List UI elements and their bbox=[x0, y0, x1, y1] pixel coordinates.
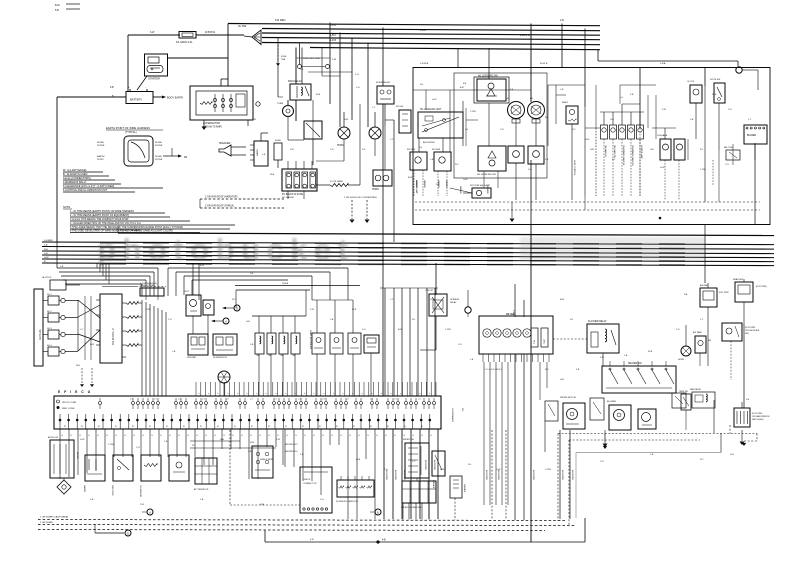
fuse radio bbox=[274, 140, 282, 168]
svg-text:2 OR W-R ROOF (HARDTOP): 2 OR W-R ROOF (HARDTOP) bbox=[205, 196, 238, 199]
svg-text:MARKER: MARKER bbox=[459, 186, 462, 194]
horn LH bbox=[337, 112, 350, 147]
wire top-left stub bbox=[55, 4, 80, 12]
wires sensor stubs into ECU bbox=[196, 382, 436, 396]
svg-text:L-Y: L-Y bbox=[412, 461, 416, 463]
svg-text:DIST: DIST bbox=[184, 291, 190, 293]
svg-text:3 mmmm THIS MEANS THE COMPANY: 3 mmmm THIS MEANS THE COMPANY INSULATOR bbox=[70, 218, 129, 221]
svg-text:1-B: 1-B bbox=[560, 19, 564, 22]
svg-text:(FOR TWIN: (FOR TWIN bbox=[752, 413, 763, 415]
svg-text:HORN: HORN bbox=[372, 189, 379, 191]
svg-text:L-Y L-B Y-G G-B R-Y: L-Y L-B Y-G G-B R-Y bbox=[484, 369, 502, 371]
svg-text:G-B: G-B bbox=[220, 439, 224, 441]
svg-text:4-B: 4-B bbox=[310, 539, 314, 541]
solenoid resistor bbox=[336, 476, 374, 503]
svg-text:ADJUSTER: ADJUSTER bbox=[423, 141, 435, 144]
svg-text:L-B: L-B bbox=[164, 441, 168, 443]
svg-text:MARKER: MARKER bbox=[415, 180, 418, 188]
svg-text:TRA: TRA bbox=[281, 58, 286, 61]
wire top bus bbox=[228, 18, 600, 50]
svg-text:CLEARANCE LAMP RH: CLEARANCE LAMP RH bbox=[631, 145, 634, 166]
svg-text:E F I E C U: E F I E C U bbox=[58, 390, 92, 394]
svg-text:W : A (LIGHT-EDGE): W : A (LIGHT-EDGE) bbox=[63, 169, 87, 172]
svg-text:4-B: 4-B bbox=[382, 540, 386, 542]
wires below ECU dashed bbox=[190, 430, 300, 505]
svg-text:1-B W-B: 1-B W-B bbox=[420, 63, 429, 65]
svg-text:W-B: W-B bbox=[712, 94, 717, 96]
svg-text:1.25B: 1.25B bbox=[700, 169, 706, 171]
svg-text:(USA 60-70 AMP): (USA 60-70 AMP) bbox=[203, 126, 222, 129]
svg-text:1-B: 1-B bbox=[200, 499, 204, 501]
wire labels scattered bbox=[80, 69, 752, 506]
blower motor bbox=[590, 398, 631, 430]
heater switch bbox=[602, 361, 676, 393]
svg-text:EARTH: EARTH bbox=[97, 155, 105, 158]
wire trunk x531 long bbox=[512, 224, 531, 542]
svg-text:L-B: L-B bbox=[172, 351, 176, 353]
svg-text:L-Y: L-Y bbox=[372, 107, 376, 109]
svg-text:Y-G: Y-G bbox=[600, 461, 604, 463]
svg-text:BATTERY: BATTERY bbox=[130, 98, 142, 102]
svg-text:O2 FEEDBACK: O2 FEEDBACK bbox=[451, 408, 454, 423]
svg-text:1 - W THIS MEANS (EARTH POINT: 1 - W THIS MEANS (EARTH POINT) OR WIRE H… bbox=[70, 210, 134, 213]
oxygen sensor bbox=[139, 455, 161, 497]
svg-text:2-G: 2-G bbox=[362, 329, 366, 331]
svg-text:5-B: 5-B bbox=[630, 94, 634, 96]
battery bbox=[57, 86, 183, 104]
svg-text:-: - bbox=[145, 86, 146, 89]
svg-text:BROWN NO2: BROWN NO2 bbox=[285, 444, 298, 446]
svg-text:1-B: 1-B bbox=[300, 454, 304, 456]
note text block bbox=[63, 205, 235, 233]
svg-text:CONNECTOR: CONNECTOR bbox=[303, 483, 317, 485]
svg-text:5-B: 5-B bbox=[576, 369, 580, 371]
flasher relay bbox=[553, 320, 619, 366]
turn signal flasher bbox=[277, 100, 294, 117]
svg-text:TURN: TURN bbox=[277, 103, 283, 105]
svg-text:NOTE: NOTE bbox=[63, 205, 70, 209]
svg-text:1-B: 1-B bbox=[262, 154, 266, 156]
svg-text:L-Y: L-Y bbox=[700, 319, 704, 321]
svg-text:1-B: 1-B bbox=[624, 355, 628, 357]
svg-text:OR DEFOGGER: OR DEFOGGER bbox=[745, 330, 760, 332]
A/F meter relay bbox=[684, 283, 729, 325]
circuit opening relay bbox=[420, 263, 460, 350]
svg-text:L-B: L-B bbox=[650, 454, 654, 456]
interior lamp bbox=[674, 139, 685, 200]
svg-text:2 OR W-B ROOF CONVERTIBLE: 2 OR W-B ROOF CONVERTIBLE bbox=[344, 197, 377, 199]
svg-text:5-B: 5-B bbox=[110, 87, 114, 89]
svg-text:OPENING: OPENING bbox=[450, 299, 460, 301]
svg-text:IGNITER: IGNITER bbox=[187, 357, 196, 359]
svg-text:B-W: B-W bbox=[460, 87, 464, 89]
svg-text:G-B: G-B bbox=[528, 169, 532, 171]
svg-text:1.25B: 1.25B bbox=[145, 309, 151, 311]
svg-text:4 - RALLED DIRECTION OF THE PA: 4 - RALLED DIRECTION OF THE PAGE AND NO … bbox=[70, 222, 141, 225]
svg-text:FILTER: FILTER bbox=[155, 159, 163, 161]
svg-text:VSV: VSV bbox=[250, 442, 255, 444]
svg-text:W-B: W-B bbox=[316, 94, 321, 96]
H/L leveling SW bbox=[463, 76, 514, 104]
wire labels near ECU right bbox=[451, 408, 463, 423]
svg-text:5-B: 5-B bbox=[250, 344, 254, 346]
svg-text:L-Y: L-Y bbox=[80, 329, 84, 331]
svg-text:(FOR TWIN: (FOR TWIN bbox=[745, 327, 756, 329]
svg-text:Y-G: Y-G bbox=[458, 344, 462, 346]
svg-text:B-W: B-W bbox=[200, 265, 204, 267]
svg-text:G-B: G-B bbox=[730, 454, 734, 456]
svg-text:R-Y: R-Y bbox=[455, 164, 459, 166]
svg-text:BOOSTER: BOOSTER bbox=[561, 470, 563, 480]
svg-text:AIR FLOW: AIR FLOW bbox=[48, 436, 58, 439]
svg-text:5-B: 5-B bbox=[248, 451, 252, 453]
defogger switch bbox=[722, 323, 760, 380]
svg-text:CLOCK: CLOCK bbox=[687, 81, 695, 83]
speaker bbox=[219, 142, 246, 156]
svg-text:22 OR GRAY: 22 OR GRAY bbox=[330, 180, 344, 183]
svg-text:5-B: 5-B bbox=[55, 9, 59, 12]
svg-text:SHIELD WIRE: SHIELD WIRE bbox=[260, 459, 274, 461]
svg-text:L-B: L-B bbox=[44, 253, 48, 255]
buzzer bbox=[744, 125, 767, 160]
fr lamp RH lower bbox=[528, 146, 544, 200]
air flow meter bbox=[48, 436, 78, 478]
svg-text:R-Y: R-Y bbox=[700, 459, 704, 461]
svg-text:TEMP: TEMP bbox=[544, 338, 546, 344]
starter bbox=[137, 54, 168, 90]
spark plugs bbox=[43, 294, 78, 356]
svg-text:1-W: 1-W bbox=[290, 149, 294, 151]
vacuum switching valve bbox=[250, 442, 273, 478]
svg-text:L-B: L-B bbox=[430, 159, 434, 161]
node A circled lower bbox=[142, 509, 153, 515]
svg-text:SOLENOID RESISTOR: SOLENOID RESISTOR bbox=[336, 501, 358, 503]
injectors no1-no4 bbox=[255, 316, 300, 396]
svg-text:(FOR TWIN): (FOR TWIN) bbox=[756, 286, 767, 288]
svg-text:(TYPICAL): (TYPICAL) bbox=[125, 131, 137, 134]
igniter bbox=[187, 334, 237, 359]
wiper switch bbox=[403, 439, 429, 478]
svg-text:TAIL LAMP RH: TAIL LAMP RH bbox=[613, 145, 616, 158]
svg-text:BOOSTER: BOOSTER bbox=[571, 470, 573, 480]
svg-text:5-B: 5-B bbox=[545, 159, 549, 161]
IG plug bbox=[34, 289, 43, 366]
svg-text:H/L LEVELING UNIT: H/L LEVELING UNIT bbox=[420, 109, 442, 111]
seat belt switch bbox=[724, 147, 740, 160]
wire dashed arrows down bbox=[344, 197, 377, 223]
svg-text:BOOSTER: BOOSTER bbox=[385, 470, 387, 480]
headlamp LH bbox=[506, 98, 525, 123]
resistors ignition bbox=[126, 302, 142, 347]
injector rail wires bbox=[236, 290, 418, 396]
svg-text:TAILLAMP LH: TAILLAMP LH bbox=[604, 145, 607, 158]
svg-text:NOISE: NOISE bbox=[97, 142, 104, 144]
fuel pump resistor box bbox=[364, 335, 379, 396]
svg-text:1.25B: 1.25B bbox=[108, 444, 114, 446]
washer motor bbox=[450, 476, 466, 520]
defogger relay bbox=[733, 278, 767, 324]
fuse stubs below bus bbox=[276, 43, 330, 69]
svg-text:1-B: 1-B bbox=[300, 69, 304, 71]
svg-text:MAIN RELAY: MAIN RELAY bbox=[288, 80, 302, 83]
svg-text:1-G: 1-G bbox=[355, 74, 359, 76]
wire bundle bus to injectors bbox=[168, 265, 348, 300]
svg-text:BOOSTER: BOOSTER bbox=[497, 470, 499, 480]
svg-text:FR SIDE: FR SIDE bbox=[432, 149, 441, 151]
svg-text:B : W ALWAYS-USED: B : W ALWAYS-USED bbox=[63, 173, 88, 176]
svg-text:FU BLOCK W FUSE: FU BLOCK W FUSE bbox=[282, 194, 304, 196]
svg-text:B-W: B-W bbox=[55, 4, 60, 7]
svg-text:EARTH POINT OF WIRE HARNESS: EARTH POINT OF WIRE HARNESS bbox=[106, 126, 150, 130]
svg-text:FLASHER RELAY: FLASHER RELAY bbox=[588, 320, 607, 323]
svg-text:L-Y: L-Y bbox=[390, 139, 394, 141]
svg-text:DOOR SW: DOOR SW bbox=[710, 79, 720, 81]
node B bottom bbox=[95, 524, 131, 536]
svg-text:W-B: W-B bbox=[648, 351, 653, 353]
svg-text:CLEARANCE LAMP LH: CLEARANCE LAMP LH bbox=[622, 145, 625, 166]
EFI ECU bbox=[54, 390, 441, 437]
svg-text:G-W: G-W bbox=[590, 149, 594, 151]
wires dashed lower right bbox=[492, 425, 757, 526]
svg-text:R-Y: R-Y bbox=[232, 299, 236, 301]
watermark photobucket bbox=[97, 232, 705, 267]
svg-text:J/B: J/B bbox=[684, 294, 688, 296]
svg-text:1.25B: 1.25B bbox=[445, 329, 451, 331]
wire trunk x383 bbox=[382, 104, 384, 396]
wires wiper trunks bbox=[417, 421, 745, 519]
wires ECU to sensors bbox=[60, 429, 438, 519]
svg-text:W/BL CONN: W/BL CONN bbox=[62, 408, 75, 410]
svg-text:SPEAKER: SPEAKER bbox=[219, 142, 231, 145]
svg-text:6 LIGHTING AND ILLUMINATION U: 6 LIGHTING AND ILLUMINATION UNIT bbox=[63, 189, 108, 192]
svg-text:G-B: G-B bbox=[246, 321, 250, 323]
svg-text:FUSE: FUSE bbox=[281, 56, 287, 58]
node A circled bbox=[211, 318, 229, 324]
svg-text:ATT RESISTOR: ATT RESISTOR bbox=[194, 488, 209, 491]
svg-text:L-B: L-B bbox=[470, 359, 474, 361]
svg-text:1-B B: 1-B B bbox=[420, 29, 426, 32]
svg-text:START INJ TIME SW: START INJ TIME SW bbox=[309, 330, 312, 349]
svg-text:L-O: L-O bbox=[620, 97, 624, 99]
check connector bbox=[300, 467, 332, 513]
svg-text:1.25-R B: 1.25-R B bbox=[520, 34, 530, 37]
svg-text:R-B: R-B bbox=[44, 249, 48, 251]
svg-text:W-B: W-B bbox=[352, 309, 357, 311]
svg-text:W-B: W-B bbox=[356, 459, 361, 461]
svg-text:MARKER: MARKER bbox=[486, 186, 489, 194]
svg-text:Y-G: Y-G bbox=[725, 164, 729, 166]
svg-text:LUGGAGE: LUGGAGE bbox=[657, 134, 668, 137]
washer switch bbox=[432, 451, 445, 489]
node B circled lower right bbox=[370, 509, 381, 515]
svg-text:2 OR W-BRF: 2 OR W-BRF bbox=[40, 522, 54, 524]
svg-text:L-B: L-B bbox=[560, 89, 564, 91]
wire dashed arrows igniter bbox=[76, 365, 94, 387]
H/L leveling unit lower bbox=[477, 146, 506, 176]
svg-text:BLOWER: BLOWER bbox=[607, 401, 617, 403]
svg-text:Y-G: Y-G bbox=[168, 319, 172, 321]
lighting harness boundary bbox=[413, 68, 770, 225]
svg-text:FR SIDE: FR SIDE bbox=[407, 149, 416, 151]
fr side marker lamp LH bbox=[407, 149, 427, 196]
svg-text:POINT: POINT bbox=[97, 159, 104, 161]
svg-text:WIPER BLOWER SW: WIPER BLOWER SW bbox=[401, 507, 421, 509]
cold start injector bbox=[309, 300, 361, 396]
svg-text:REAR DEF: REAR DEF bbox=[733, 278, 744, 281]
legend wire color code bbox=[63, 169, 163, 192]
svg-text:RADIO: RADIO bbox=[256, 149, 259, 156]
horn assembly bbox=[372, 170, 392, 191]
svg-text:BOOSTER: BOOSTER bbox=[532, 470, 534, 480]
svg-text:1.25B: 1.25B bbox=[545, 469, 551, 471]
svg-text:FUSE: FUSE bbox=[275, 140, 281, 142]
svg-text:Lamps (CONNECTORS): Lamps (CONNECTORS) bbox=[63, 177, 91, 180]
svg-text:R-Y: R-Y bbox=[192, 445, 196, 447]
wire trunk x394 bbox=[393, 120, 395, 242]
svg-text:MARKER: MARKER bbox=[437, 180, 440, 188]
svg-text:2-G: 2-G bbox=[728, 109, 732, 111]
water temp sensor bbox=[83, 455, 105, 493]
fusible link F/L MAIN 2.0L bbox=[176, 32, 196, 45]
svg-text:WASHER: WASHER bbox=[463, 484, 466, 493]
wire bottom loop 4-B bbox=[265, 518, 585, 544]
svg-text:STARTER: STARTER bbox=[148, 77, 160, 81]
svg-text:FILTER: FILTER bbox=[97, 145, 105, 147]
svg-text:WIPER SW: WIPER SW bbox=[403, 439, 414, 441]
relay component bbox=[376, 81, 394, 126]
svg-text:1-R B: 1-R B bbox=[330, 39, 337, 42]
svg-text:IG PLUG: IG PLUG bbox=[38, 329, 42, 340]
svg-text:photobucket: photobucket bbox=[97, 232, 355, 267]
svg-text:2-G: 2-G bbox=[356, 87, 360, 89]
svg-text:G-B: G-B bbox=[610, 119, 614, 121]
rheostat bbox=[562, 102, 578, 200]
svg-text:1-B R: 1-B R bbox=[330, 24, 336, 27]
svg-text:H/L LEVELING SW: H/L LEVELING SW bbox=[477, 174, 497, 176]
svg-text:2-G: 2-G bbox=[419, 147, 423, 149]
wire battery feed bbox=[128, 31, 244, 91]
wire bottom dashed bus bbox=[38, 516, 576, 531]
fr turn signal lamp bbox=[463, 184, 491, 198]
svg-text:1-B: 1-B bbox=[690, 119, 694, 121]
svg-text:THROTTLE: THROTTLE bbox=[111, 485, 113, 496]
svg-text:FR S.M.: FR S.M. bbox=[396, 106, 404, 108]
svg-text:WIPER MOTOR: WIPER MOTOR bbox=[560, 397, 576, 399]
svg-text:MARKER: MARKER bbox=[423, 180, 426, 188]
headlamp RH bbox=[528, 98, 545, 123]
svg-text:W/CS1 CONN: W/CS1 CONN bbox=[62, 402, 76, 404]
cold start injector symbol bbox=[57, 478, 71, 494]
luggage lamp bbox=[657, 134, 671, 200]
wiper motor bbox=[545, 397, 585, 429]
svg-text:OX SENSOR: OX SENSOR bbox=[139, 485, 141, 497]
pilot circle bbox=[465, 290, 471, 317]
svg-text:1-G: 1-G bbox=[465, 129, 469, 131]
svg-text:5-R RED: 5-R RED bbox=[275, 18, 286, 22]
svg-text:RHEO: RHEO bbox=[562, 102, 568, 104]
svg-text:FUEL: FUEL bbox=[534, 339, 536, 344]
svg-text:SW): SW) bbox=[745, 333, 749, 335]
svg-text:1-B A: 1-B A bbox=[660, 62, 666, 65]
svg-text:5 CLEARANCE (1/P-L A-P (T :: 5 CLEARANCE (1/P-L A-P (T : (LIGHT-USED) bbox=[63, 185, 114, 188]
svg-text:W-B: W-B bbox=[270, 174, 275, 176]
svg-text:HORN: HORN bbox=[678, 359, 684, 361]
A/F tank switch bbox=[693, 331, 711, 366]
svg-text:2 - W THIS MEANS (EARTH POINT: 2 - W THIS MEANS (EARTH POINT OF EQUIPME… bbox=[70, 214, 129, 217]
clock bbox=[687, 81, 702, 139]
svg-text:4-B: 4-B bbox=[44, 245, 48, 247]
svg-text:W-B B-W: W-B B-W bbox=[205, 31, 216, 34]
svg-text:DEFOGGER): DEFOGGER) bbox=[752, 419, 764, 421]
sensor trunk wires right bbox=[380, 288, 438, 396]
distributor bbox=[184, 291, 214, 334]
svg-text:WATER: WATER bbox=[83, 485, 86, 493]
svg-text:MARKER: MARKER bbox=[445, 180, 448, 188]
svg-text:2-G: 2-G bbox=[676, 329, 680, 331]
svg-text:1-B: 1-B bbox=[330, 319, 334, 321]
distributor rotor bbox=[218, 371, 230, 396]
svg-text:FR: FR bbox=[184, 156, 187, 159]
svg-text:BUZZER: BUZZER bbox=[747, 135, 757, 137]
svg-text:4 MARKED B RALLY: 4 MARKED B RALLY bbox=[63, 181, 87, 184]
svg-text:L-Y: L-Y bbox=[748, 119, 752, 121]
wires into lighting box bbox=[420, 24, 738, 129]
svg-text:BOOSTER: BOOSTER bbox=[433, 460, 435, 470]
side marker connector bbox=[396, 106, 411, 133]
svg-text:1-BR-B: 1-BR-B bbox=[282, 283, 289, 285]
wires wiper cluster to bus bbox=[403, 503, 429, 520]
fr lamp LH lower bbox=[508, 146, 524, 200]
svg-text:L-Y: L-Y bbox=[390, 299, 394, 301]
noise filter condenser bbox=[140, 285, 164, 300]
svg-text:R-L: R-L bbox=[700, 149, 703, 151]
H/L leveling unit upper bbox=[418, 109, 463, 144]
svg-text:A/F RADI: A/F RADI bbox=[700, 284, 709, 287]
svg-text:LICENCE LAMP: LICENCE LAMP bbox=[640, 145, 643, 160]
svg-text:CHECK: CHECK bbox=[303, 479, 311, 481]
fr side marker lamp RH bbox=[432, 149, 451, 196]
svg-text:HEATER SW: HEATER SW bbox=[628, 362, 642, 365]
tail lamp row bbox=[600, 104, 644, 196]
svg-text:BODY EARTH: BODY EARTH bbox=[167, 97, 183, 100]
svg-text:A/F TANK: A/F TANK bbox=[693, 331, 702, 334]
radio bbox=[250, 133, 268, 166]
svg-text:W/L: W/L bbox=[461, 408, 463, 411]
knock sensor bbox=[169, 455, 189, 481]
svg-text:BOOSTER: BOOSTER bbox=[403, 470, 405, 480]
resistor inline bbox=[316, 180, 360, 187]
fuse block bbox=[282, 161, 317, 199]
svg-text:1.25B: 1.25B bbox=[470, 111, 476, 113]
svg-text:1A 2221 W: 1A 2221 W bbox=[42, 276, 51, 279]
air temp sensor grid bbox=[194, 458, 217, 491]
wire middle bus bbox=[42, 226, 774, 266]
condenser fan relay bbox=[672, 388, 715, 408]
alternator bbox=[190, 79, 260, 130]
door switch bbox=[710, 79, 725, 150]
wire rotated labels trunks bbox=[385, 180, 573, 480]
svg-text:1 OR W-BRF (CALIFORNIA): 1 OR W-BRF (CALIFORNIA) bbox=[40, 516, 68, 519]
svg-text:Y-G: Y-G bbox=[136, 447, 140, 449]
svg-text:R-Y: R-Y bbox=[572, 129, 576, 131]
svg-text:IGN W/CDN LP: IGN W/CDN LP bbox=[112, 328, 115, 345]
svg-text:BOOSTER: BOOSTER bbox=[394, 470, 396, 480]
ignition coil IGN W/CDN LP bbox=[96, 294, 126, 363]
svg-text:RELAY: RELAY bbox=[450, 301, 457, 304]
svg-text:W/ RESISTOR: W/ RESISTOR bbox=[213, 357, 227, 359]
svg-text:FAN RELAY: FAN RELAY bbox=[690, 388, 702, 391]
svg-text:30-W B: 30-W B bbox=[540, 63, 548, 65]
